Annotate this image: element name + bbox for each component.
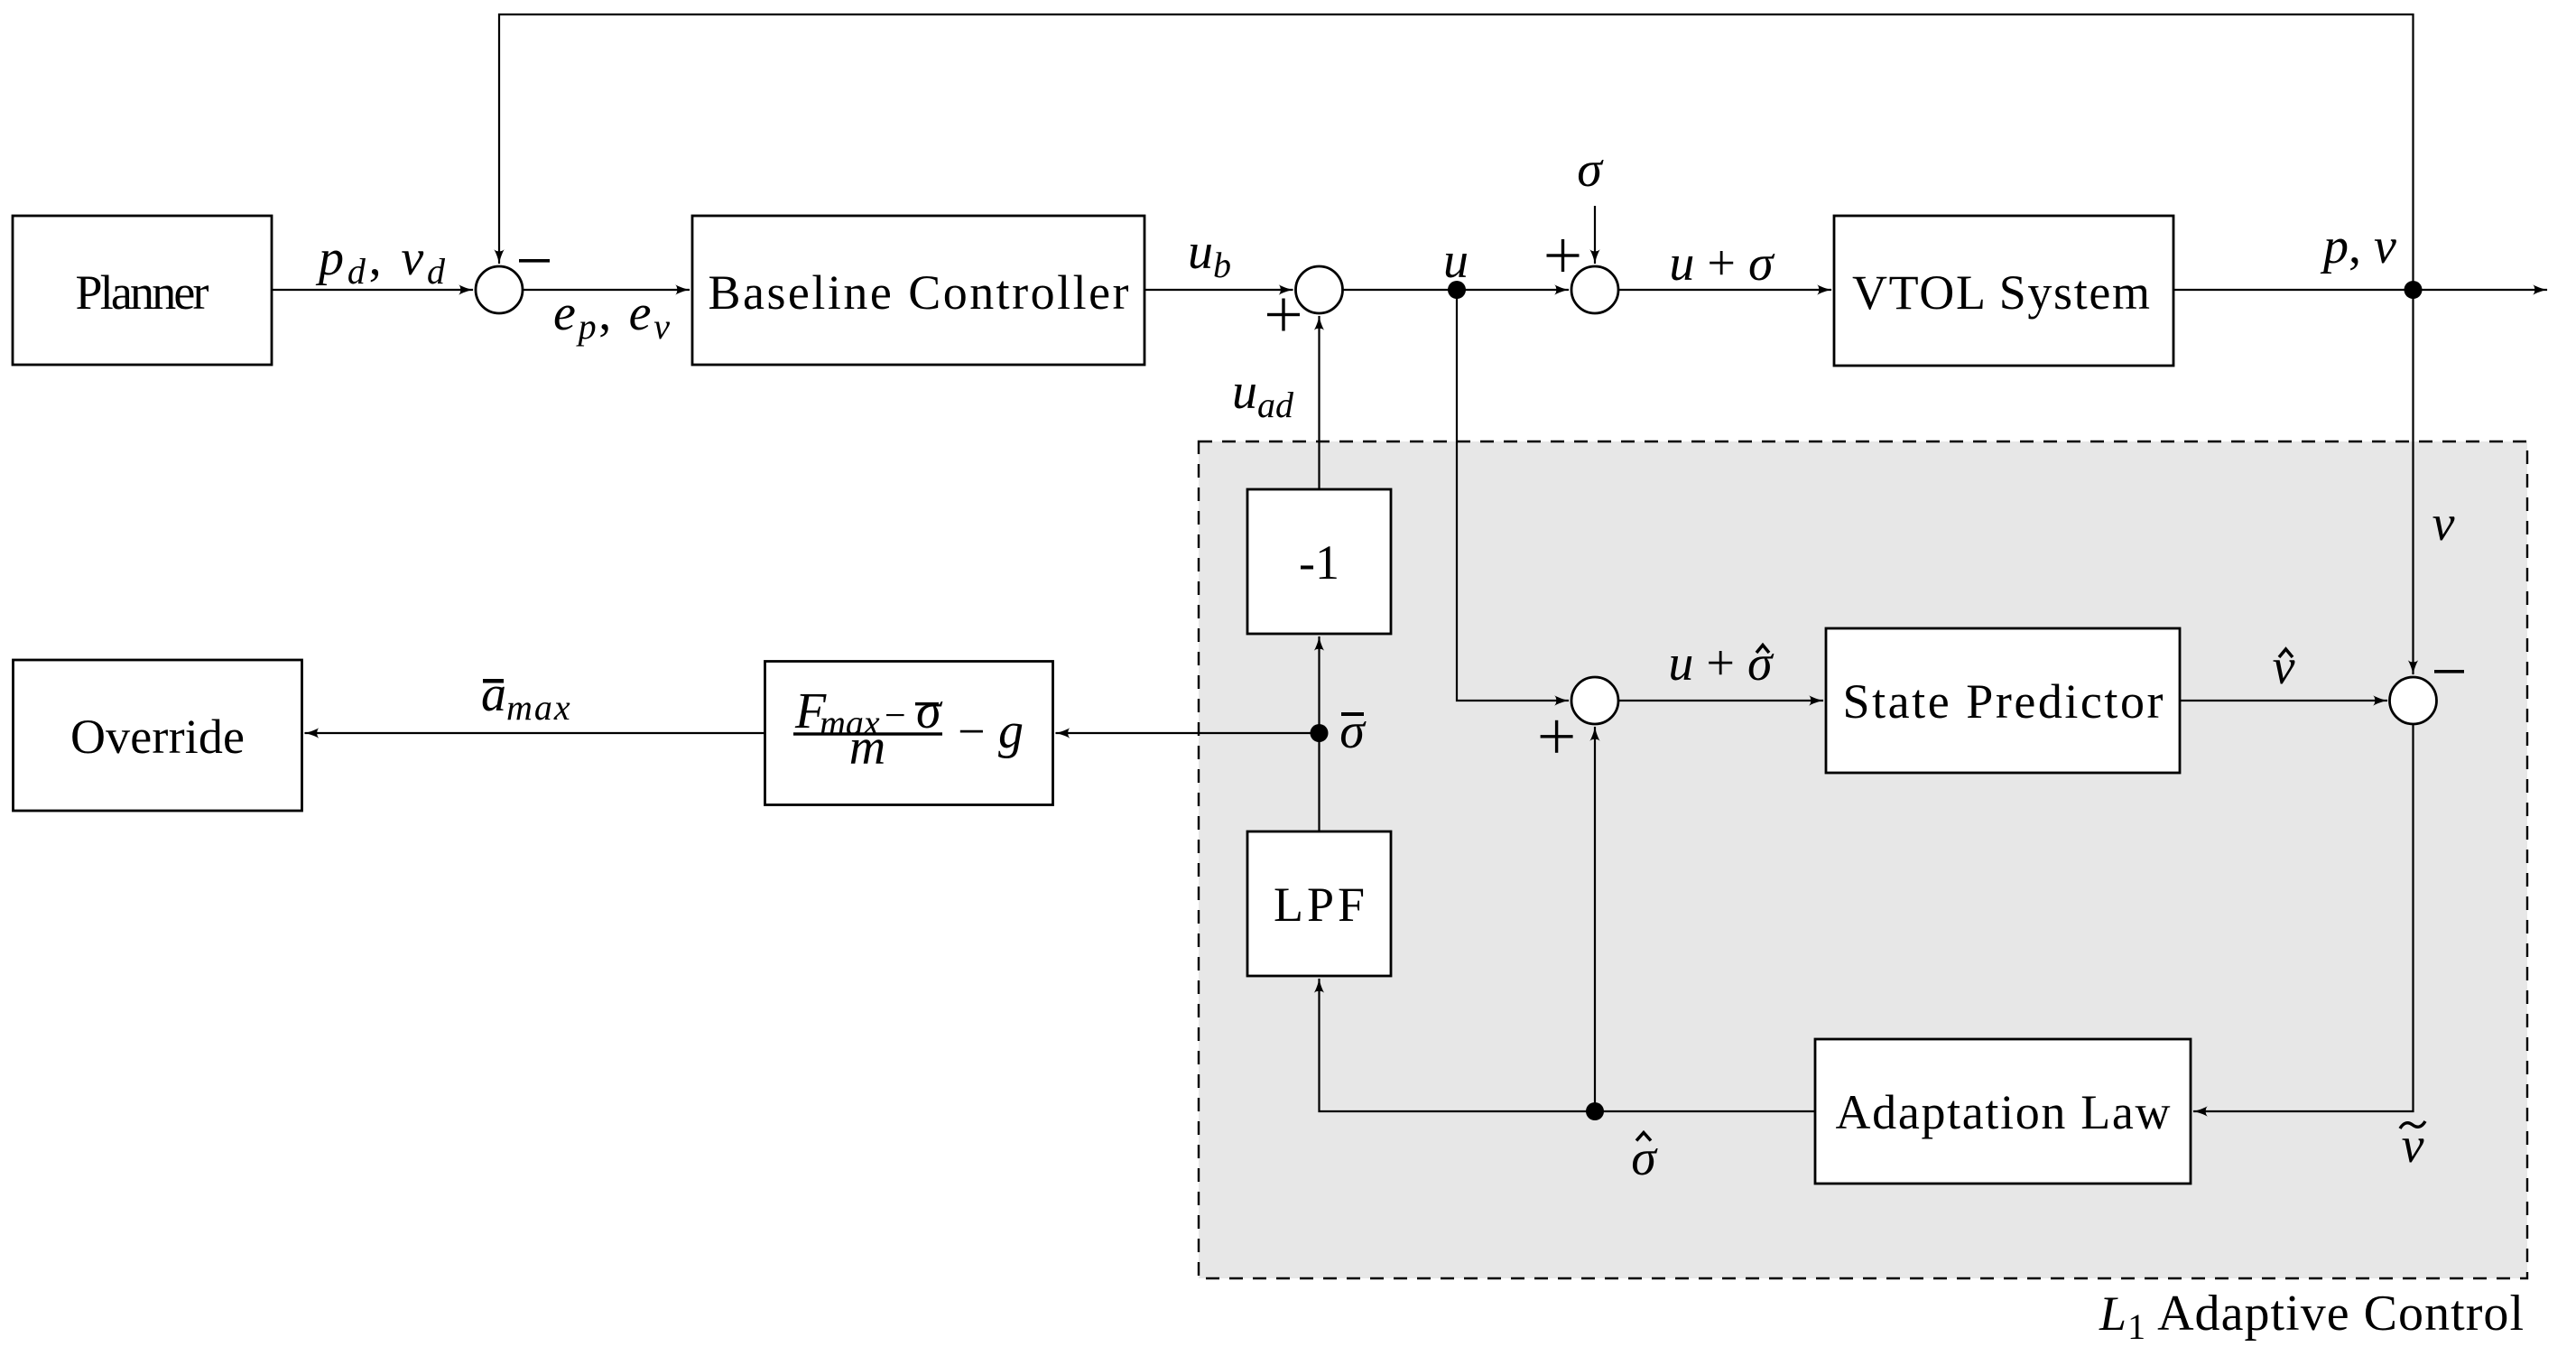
svg-text:ep, ev: ep, ev <box>553 285 670 347</box>
wire u node down and right into sum4 <box>1457 290 1569 701</box>
svg-text:σ: σ <box>1631 1130 1658 1186</box>
summing junction sum4 <box>1571 677 1618 724</box>
svg-text:u + σ: u + σ <box>1668 636 1774 692</box>
block Override <box>14 660 302 811</box>
svg-text:pd, vd: pd, vd <box>315 230 446 292</box>
svg-text:-1: -1 <box>1299 535 1339 590</box>
block acceleration-limit formula (Fmax - sigmabar)/m - g <box>765 662 1053 805</box>
feedback wire p,v dot up over top to sum1 <box>499 14 2414 290</box>
wire sigma into sum3 <box>1594 206 1596 264</box>
svg-text:Baseline Controller: Baseline Controller <box>709 265 1129 320</box>
svg-text:Override: Override <box>70 710 245 764</box>
block Adaptation Law <box>1815 1039 2191 1184</box>
summing junction sum1 <box>476 266 523 313</box>
wire State Predictor to sum5 <box>2180 700 2387 701</box>
node u (junction dot) <box>1448 281 1466 299</box>
summing junction sum3 <box>1571 266 1618 313</box>
wire Baseline Controller to sum2 <box>1144 289 1293 291</box>
minus sign at sum5 <box>2434 670 2464 673</box>
svg-text:v: v <box>2432 496 2455 552</box>
wire LPF up to -1 through sigma-bar node <box>1318 636 1320 831</box>
wire sigma-hat node up into sum4 <box>1594 727 1596 1111</box>
svg-text:ub: ub <box>1188 224 1231 285</box>
wire v down from p,v node into sum5 <box>2412 290 2414 674</box>
svg-text:u + σ: u + σ <box>1669 236 1775 292</box>
svg-text:uad: uad <box>1232 364 1294 425</box>
svg-text:p, v: p, v <box>2320 218 2396 274</box>
svg-text:m: m <box>849 720 885 776</box>
wire -1 up to sum2 <box>1318 316 1320 489</box>
svg-text:LPF: LPF <box>1274 878 1365 932</box>
block Baseline Controller <box>692 216 1144 365</box>
plus sign at sum3 <box>1547 239 1580 272</box>
block LPF <box>1247 831 1391 976</box>
block VTOL System <box>1834 216 2173 366</box>
minus sign at sum1 <box>519 259 550 263</box>
svg-text:σ: σ <box>1339 703 1367 759</box>
svg-text:u: u <box>1443 233 1469 289</box>
plus sign at sum4 <box>1541 720 1573 753</box>
node p,v (junction dot) <box>2405 281 2423 299</box>
node sigma-hat (junction dot) <box>1586 1102 1604 1120</box>
svg-text:Planner: Planner <box>76 265 209 320</box>
wire sum5 down and left into Adaptation Law <box>2193 724 2414 1111</box>
L1 adaptive control dashed gray region <box>1199 441 2527 1278</box>
svg-text:Adaptation Law: Adaptation Law <box>1836 1085 2171 1139</box>
svg-text:v: v <box>2273 639 2295 695</box>
svg-text:−: − <box>885 695 906 737</box>
svg-text:amax: amax <box>481 666 572 728</box>
wire sum3 to VTOL System <box>1618 289 1831 291</box>
wire Adaptation Law left to LPF through sigma-hat node <box>1320 979 1816 1111</box>
svg-text:−: − <box>958 704 985 758</box>
wire sigma-bar to formula box <box>1056 732 1320 734</box>
svg-text:g: g <box>998 703 1024 759</box>
wire VTOL System to output <box>2173 289 2547 291</box>
summing junction sum5 <box>2390 677 2437 724</box>
node sigma-bar (junction dot) <box>1311 724 1329 742</box>
plus sign at sum2 <box>1267 299 1300 331</box>
block -1 <box>1247 489 1391 634</box>
svg-text:σ: σ <box>1577 142 1604 198</box>
wire sum2 to sum3 through u node <box>1343 289 1570 291</box>
wire formula box to Override <box>305 732 765 734</box>
wire sum1 to Baseline Controller <box>523 289 690 291</box>
wire Planner to sum1 <box>272 289 473 291</box>
svg-text:State Predictor: State Predictor <box>1843 674 2164 729</box>
svg-text:L1 Adaptive Control: L1 Adaptive Control <box>2099 1286 2524 1347</box>
wire sum4 to State Predictor <box>1618 700 1823 701</box>
svg-text:σ: σ <box>916 683 943 739</box>
block State Predictor <box>1826 628 2180 773</box>
block Planner <box>13 216 272 365</box>
summing junction sum2 <box>1296 266 1343 313</box>
svg-text:VTOL System: VTOL System <box>1852 265 2150 320</box>
